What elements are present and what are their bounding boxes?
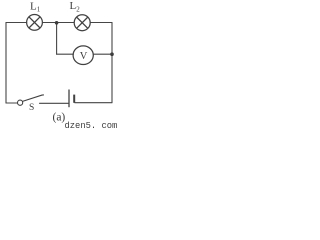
wire right vertical xyxy=(111,23,113,103)
switch S xyxy=(18,95,44,105)
battery cell xyxy=(69,90,74,108)
battery long plate (positive) xyxy=(68,90,70,108)
svg-text:(a): (a) xyxy=(53,111,66,123)
wire switch contact to battery xyxy=(40,102,69,104)
voltmeter V xyxy=(73,46,93,65)
svg-text:dzen5. com: dzen5. com xyxy=(65,121,118,129)
node junction dot top xyxy=(55,21,59,25)
svg-text:L1: L1 xyxy=(30,0,41,13)
svg-text:L2: L2 xyxy=(70,0,81,13)
battery short plate (negative) xyxy=(73,95,75,103)
wire voltmeter branch left horizontal xyxy=(57,53,74,55)
wire bottom left to switch xyxy=(6,102,17,104)
wire left vertical xyxy=(5,23,7,104)
svg-text:V: V xyxy=(80,51,88,62)
node junction dot right xyxy=(110,52,114,56)
wire top left horizontal xyxy=(6,22,27,24)
wire voltmeter branch left vertical xyxy=(56,23,58,54)
wire top right horizontal xyxy=(90,22,112,24)
svg-text:S: S xyxy=(29,103,34,113)
wire top middle horizontal xyxy=(42,22,74,24)
wire voltmeter branch right horizontal xyxy=(93,53,112,55)
lamp L1 xyxy=(27,15,43,31)
lamp L2 xyxy=(74,15,90,31)
wire battery to bottom right corner xyxy=(75,102,112,104)
